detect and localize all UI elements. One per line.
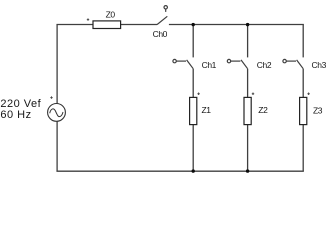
svg-text:Z2: Z2 (258, 105, 268, 115)
svg-text:Z1: Z1 (202, 105, 212, 115)
svg-text:Ch0: Ch0 (153, 29, 168, 39)
svg-text:Ch2: Ch2 (257, 60, 272, 70)
svg-text:Ch3: Ch3 (312, 60, 326, 70)
svg-text:Z0: Z0 (106, 9, 116, 19)
svg-text:Ch1: Ch1 (202, 60, 217, 70)
svg-text:60 Hz: 60 Hz (0, 109, 31, 121)
svg-text:Z3: Z3 (313, 106, 323, 116)
